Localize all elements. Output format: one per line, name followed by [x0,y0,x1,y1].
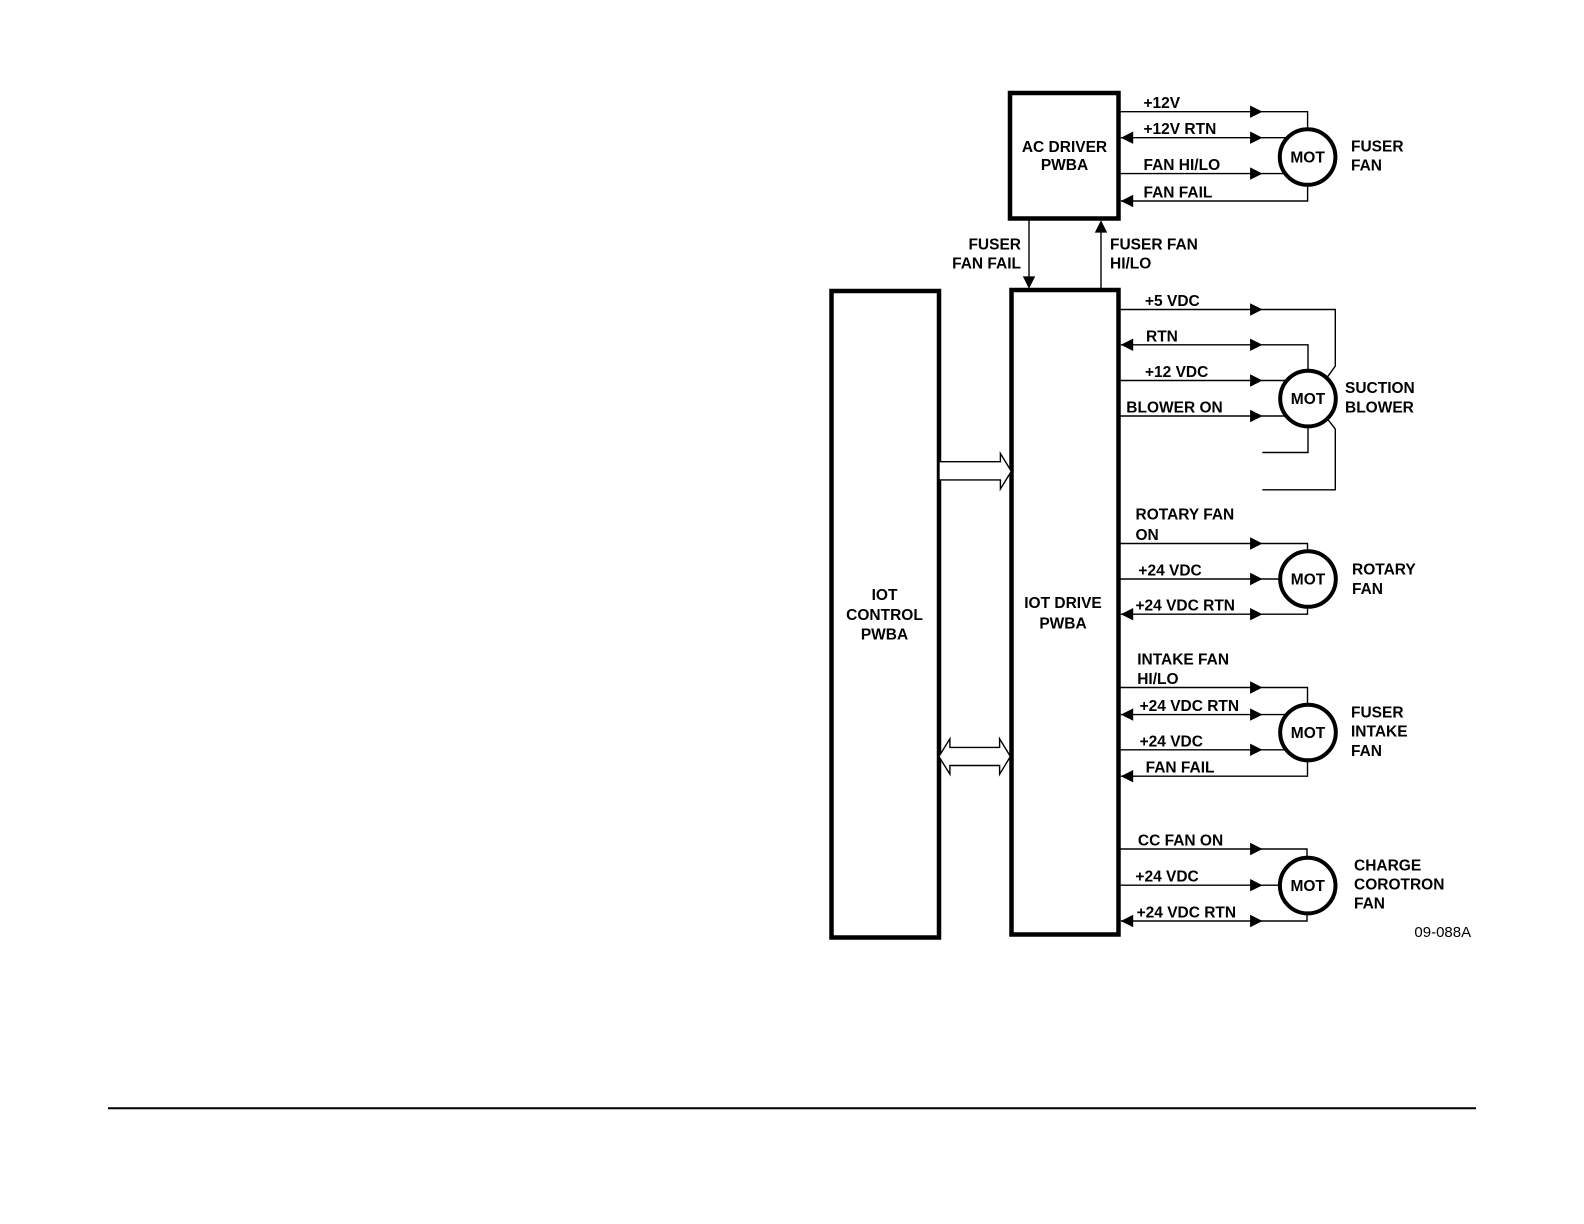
svg-text:PWBA: PWBA [1041,157,1088,174]
svg-text:+24 VDC: +24 VDC [1140,733,1203,750]
svg-text:+5 VDC: +5 VDC [1145,293,1200,310]
wire +12V RTN [1121,121,1288,144]
wire +24 VDC (cc) [1119,869,1282,892]
svg-text:FAN: FAN [1352,581,1383,598]
bus arrow: IOT CONTROL to IOT DRIVE (single) [939,454,1011,490]
wire FAN FAIL (intake) [1121,759,1308,782]
wire CC FAN ON [1119,833,1308,860]
wire +24 VDC (rotary) [1119,563,1282,586]
wire FAN HI/LO [1119,157,1286,180]
wire +24 VDC (intake) [1119,733,1287,756]
svg-text:SUCTION: SUCTION [1345,380,1415,397]
svg-text:FUSER: FUSER [1351,138,1404,155]
box U2: IOT CONTROL PWBA [832,291,940,938]
svg-text:CC FAN ON: CC FAN ON [1138,833,1223,850]
motor M2: SUCTION BLOWER (MOT) [1280,371,1415,427]
motor M5: CHARGE COROTRON FAN (MOT) [1280,857,1445,913]
svg-text:MOT: MOT [1290,150,1325,167]
wire blower return stub 1 [1262,425,1308,452]
wire +24 VDC RTN (cc) [1121,905,1307,928]
motor M3: ROTARY FAN (MOT) [1280,551,1416,607]
wire FAN FAIL [1121,184,1308,208]
svg-text:PWBA: PWBA [861,627,908,644]
svg-text:MOT: MOT [1291,391,1326,408]
svg-text:COROTRON: COROTRON [1354,876,1444,893]
wire BLOWER ON [1119,400,1287,423]
svg-text:FAN: FAN [1351,743,1382,760]
wire ROTARY FAN ON [1119,506,1308,552]
box U3: IOT DRIVE PWBA [1012,290,1119,935]
footer rule [108,1107,1476,1109]
svg-text:ROTARY: ROTARY [1352,562,1416,579]
wire +5 VDC [1119,293,1336,377]
motor M1: FUSER FAN (MOT) [1280,129,1404,185]
svg-text:IOT DRIVE: IOT DRIVE [1024,595,1102,612]
svg-text:MOT: MOT [1291,572,1326,589]
svg-text:PWBA: PWBA [1039,615,1086,632]
wire +12V [1119,95,1308,130]
svg-text:FAN FAIL: FAN FAIL [952,256,1021,273]
svg-text:+24 VDC RTN: +24 VDC RTN [1136,598,1236,615]
bus arrow: IOT CONTROL / IOT DRIVE (double) [939,739,1011,774]
wire blower return stub 2 [1262,419,1335,490]
svg-text:INTAKE: INTAKE [1351,724,1408,741]
svg-text:09-088A: 09-088A [1414,924,1471,941]
svg-text:+24 VDC RTN: +24 VDC RTN [1140,698,1240,715]
svg-text:BLOWER ON: BLOWER ON [1126,400,1222,417]
svg-text:HI/LO: HI/LO [1137,671,1178,688]
svg-text:FAN HI/LO: FAN HI/LO [1144,157,1221,174]
svg-text:FUSER FAN: FUSER FAN [1110,237,1198,254]
svg-text:+24 VDC: +24 VDC [1138,563,1201,580]
wire +12 VDC [1119,364,1287,387]
svg-text:+12V RTN: +12V RTN [1144,121,1217,138]
svg-text:+24 VDC: +24 VDC [1135,869,1198,886]
svg-text:RTN: RTN [1146,328,1178,345]
svg-text:FAN FAIL: FAN FAIL [1144,185,1213,202]
svg-text:FUSER: FUSER [1351,704,1404,721]
svg-text:FUSER: FUSER [968,237,1021,254]
svg-text:MOT: MOT [1291,725,1326,742]
wire +24 VDC RTN (rotary) [1121,598,1308,621]
motor M4: FUSER INTAKE FAN (MOT) [1280,704,1407,760]
label figure number 09-088A [1414,924,1471,941]
svg-text:ON: ON [1136,527,1159,544]
svg-text:+12V: +12V [1144,95,1181,112]
wire RTN [1121,328,1308,372]
wire FUSER FAN HI/LO (IOT DRIVE to AC DRIVER) [1095,220,1198,290]
svg-text:ROTARY FAN: ROTARY FAN [1136,506,1235,523]
svg-text:CONTROL: CONTROL [846,607,923,624]
svg-text:+12 VDC: +12 VDC [1145,364,1208,381]
svg-text:FAN FAIL: FAN FAIL [1146,760,1215,777]
wire INTAKE FAN HI/LO [1119,652,1308,706]
wire +24 VDC RTN (intake) [1121,698,1287,721]
svg-text:BLOWER: BLOWER [1345,399,1414,416]
svg-text:IOT: IOT [872,587,898,604]
svg-text:INTAKE FAN: INTAKE FAN [1137,652,1229,669]
svg-text:HI/LO: HI/LO [1110,256,1151,273]
svg-text:AC DRIVER: AC DRIVER [1022,139,1107,156]
box U1: AC DRIVER PWBA [1010,93,1119,219]
svg-text:FAN: FAN [1354,895,1385,912]
svg-text:MOT: MOT [1290,878,1325,895]
svg-text:CHARGE: CHARGE [1354,857,1421,874]
svg-text:FAN: FAN [1351,158,1382,175]
svg-text:+24 VDC RTN: +24 VDC RTN [1137,905,1237,922]
wire FUSER FAN FAIL (AC DRIVER to IOT DRIVE) [952,219,1035,289]
